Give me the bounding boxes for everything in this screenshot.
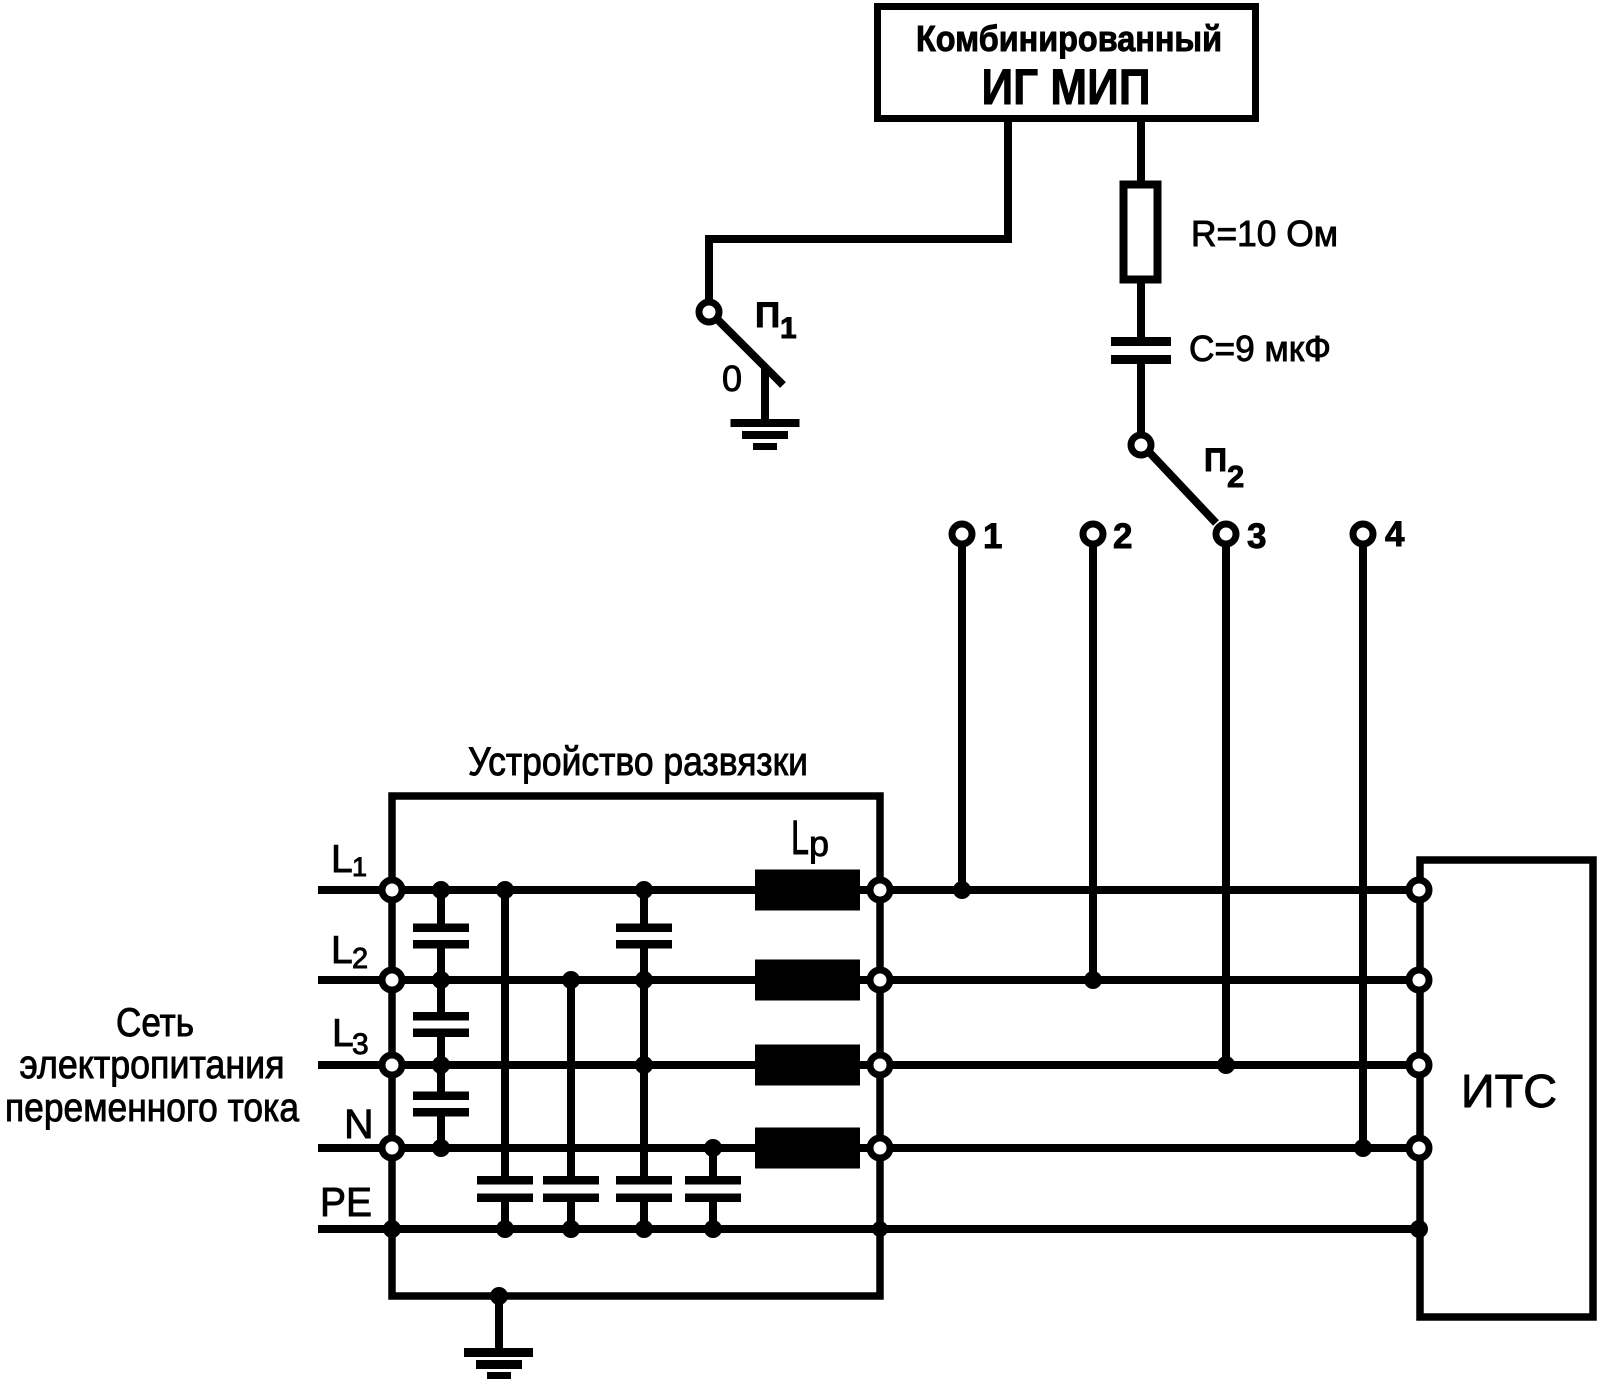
svg-text:4: 4 (1385, 515, 1405, 554)
terminal L3 left (382, 1055, 402, 1075)
node L2-C4 (635, 971, 653, 989)
svg-text:L: L (791, 812, 809, 865)
open terminals (382, 302, 1429, 1158)
svg-text:2: 2 (1113, 517, 1132, 556)
node N-C8 (704, 1139, 722, 1157)
svg-text:2: 2 (1227, 459, 1244, 494)
svg-text:Комбинированный: Комбинированный (916, 18, 1222, 59)
node L1-C1 (432, 881, 450, 899)
svg-text:С=9 мкФ: С=9 мкФ (1189, 328, 1331, 369)
ground wire of decoupling box (495, 1296, 503, 1348)
svg-text:PE: PE (320, 1179, 372, 1225)
generator box ИГ МИП (878, 7, 1256, 119)
wire node3 (1222, 547, 1230, 1065)
node L1-C5 (496, 881, 514, 899)
svg-text:ИТС: ИТС (1461, 1065, 1557, 1117)
svg-text:1: 1 (983, 517, 1002, 556)
terminal П1 pivot (699, 302, 719, 322)
terminal L2 ИТС (1409, 970, 1429, 990)
svg-text:П: П (755, 296, 780, 335)
node wire3-L3 (1217, 1056, 1235, 1074)
junction dots (383, 881, 1428, 1305)
wire R to C (1137, 279, 1145, 338)
svg-text:3: 3 (352, 1028, 369, 1061)
node PE right edge (872, 1221, 888, 1237)
node PE-C5 (496, 1220, 514, 1238)
svg-text:П: П (1204, 442, 1227, 478)
terminal L1 right (870, 880, 890, 900)
decoupling device box (392, 796, 880, 1296)
svg-text:Сеть: Сеть (116, 1001, 194, 1045)
inductor Lp on L1 (755, 870, 860, 911)
switch П1 blade (718, 320, 783, 385)
node PE-C6 (562, 1220, 580, 1238)
line L1 (318, 886, 1417, 894)
terminal N right (870, 1138, 890, 1158)
capacitor C8 plates (N-PE) (685, 1176, 741, 1202)
wire C to П2 (1137, 364, 1145, 434)
wire node4 (1359, 547, 1367, 1148)
terminal N left (382, 1138, 402, 1158)
node wire2-L2 (1084, 971, 1102, 989)
node L1-C4 (635, 881, 653, 899)
ground symbol under П1 (731, 419, 800, 450)
svg-text:L: L (332, 1012, 354, 1055)
cap chain L1-L2-L3-N leads (437, 890, 445, 1148)
capacitor C=9 мкФ plates (1111, 337, 1171, 364)
node L3-C7 (635, 1056, 653, 1074)
line N (318, 1144, 1417, 1152)
svg-text:Устройство развязки: Устройство развязки (468, 740, 808, 784)
cap N-PE lead (709, 1148, 717, 1229)
terminal L1 ИТС (1409, 880, 1429, 900)
node L2-C1 (432, 971, 450, 989)
svg-text:ИГ МИП: ИГ МИП (982, 59, 1151, 115)
inductor Lp on L3 (755, 1045, 860, 1086)
terminal L3 right (870, 1055, 890, 1075)
svg-text:переменного тока: переменного тока (5, 1086, 300, 1130)
node ground (490, 1287, 508, 1305)
terminal 3 (1216, 524, 1236, 544)
node PE-C8 (704, 1220, 722, 1238)
capacitor C1 plates (L1-L2) (413, 924, 469, 949)
inductor Lp on L2 (755, 960, 860, 1001)
terminal L2 left (382, 970, 402, 990)
node PE-C7 (635, 1220, 653, 1238)
terminal N ИТС (1409, 1138, 1429, 1158)
cap L1-PE lead (501, 890, 509, 1229)
node wire1-L1 (953, 881, 971, 899)
terminal L3 ИТС (1409, 1055, 1429, 1075)
svg-text:R=10 Ом: R=10 Ом (1191, 213, 1338, 254)
terminal 4 (1353, 524, 1373, 544)
svg-text:1: 1 (352, 852, 367, 882)
svg-text:2: 2 (352, 943, 368, 975)
node L3-C2 (432, 1056, 450, 1074)
cap L1-L2 second lead (640, 890, 648, 1229)
svg-text:электропитания: электропитания (20, 1043, 285, 1087)
terminal L1 left (382, 880, 402, 900)
node PE left (383, 1220, 401, 1238)
line L3 (318, 1061, 1417, 1069)
wire node1 (958, 547, 966, 890)
switch П2 blade (1150, 453, 1216, 523)
ground symbol under decoupling box (464, 1348, 533, 1379)
line L2 (318, 976, 1417, 984)
wire from generator to П1 (709, 118, 1008, 302)
node N-C3 (432, 1139, 450, 1157)
node wire4-N (1354, 1139, 1372, 1157)
capacitor C7 plates (L3-PE) (616, 1176, 672, 1202)
terminal L2 right (870, 970, 890, 990)
terminal 2 (1083, 524, 1103, 544)
svg-text:N: N (344, 1101, 374, 1147)
svg-text:L: L (331, 838, 353, 881)
capacitor C4 plates (L1-L2 second) (616, 924, 672, 949)
capacitor C2 plates (L2-L3) (413, 1012, 469, 1037)
node PE at ИТС (1410, 1220, 1428, 1238)
resistor R=10 Ом (1124, 185, 1158, 280)
ИТС box (1420, 860, 1593, 1317)
terminal 1 (952, 524, 972, 544)
line PE (318, 1225, 1419, 1233)
svg-text:p: p (809, 823, 829, 864)
capacitor C5 plates (L1-PE) (477, 1176, 533, 1202)
svg-text:1: 1 (780, 312, 797, 345)
wire from generator to R (1137, 118, 1145, 181)
inductor Lp on N (755, 1128, 860, 1169)
svg-text:3: 3 (1247, 517, 1266, 556)
capacitor C6 plates (L2-PE) (543, 1176, 599, 1202)
capacitor C3 plates (L3-N) (413, 1092, 469, 1117)
wire node2 (1089, 547, 1097, 980)
switch П1 fixed contact (761, 366, 769, 421)
svg-text:L: L (331, 929, 353, 972)
svg-text:0: 0 (722, 358, 742, 399)
terminal П2 pivot (1131, 435, 1151, 455)
node L2-C6 (562, 971, 580, 989)
cap L2-PE lead (567, 980, 575, 1229)
